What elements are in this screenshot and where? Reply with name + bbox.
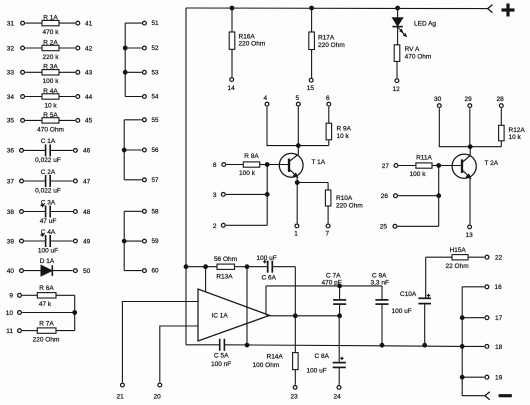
terminal 6 bbox=[326, 95, 331, 106]
wire terminal 4 drop bbox=[267, 107, 296, 146]
svg-text:45: 45 bbox=[85, 118, 93, 125]
svg-text:6: 6 bbox=[326, 95, 330, 102]
wire C6A drop to output bbox=[294, 267, 296, 316]
svg-text:37: 37 bbox=[7, 178, 15, 185]
junction R13A right bbox=[245, 265, 249, 269]
svg-text:28: 28 bbox=[497, 96, 505, 103]
svg-text:16: 16 bbox=[495, 284, 503, 291]
svg-text:47 k: 47 k bbox=[39, 301, 52, 308]
svg-text:100 nF: 100 nF bbox=[211, 361, 231, 368]
svg-text:10 k: 10 k bbox=[337, 133, 350, 140]
svg-text:46: 46 bbox=[83, 148, 91, 155]
svg-text:60: 60 bbox=[152, 268, 160, 275]
svg-text:220 Ohm: 220 Ohm bbox=[318, 42, 345, 49]
svg-text:7: 7 bbox=[326, 230, 330, 237]
wire terminal 29 drop bbox=[469, 108, 471, 147]
svg-text:R14A: R14A bbox=[267, 354, 284, 361]
capacitor C10A bbox=[392, 291, 432, 345]
svg-text:C 9A: C 9A bbox=[372, 272, 387, 279]
svg-text:100 k: 100 k bbox=[410, 171, 427, 178]
resistor R3A row 33-43 bbox=[7, 64, 93, 86]
svg-text:10 k: 10 k bbox=[44, 102, 57, 109]
resistor R8A terminal 8 bbox=[213, 153, 267, 177]
svg-text:100 uF: 100 uF bbox=[307, 367, 327, 374]
plus supply symbol bbox=[502, 4, 515, 17]
svg-text:48: 48 bbox=[83, 209, 91, 216]
svg-text:25: 25 bbox=[380, 224, 388, 231]
terminal 16 bbox=[462, 284, 502, 291]
wire op-amp supply drop bbox=[205, 267, 207, 293]
svg-text:30: 30 bbox=[434, 96, 442, 103]
transistor T1A bbox=[279, 153, 325, 177]
terminal 5 bbox=[296, 95, 301, 106]
svg-text:C10A: C10A bbox=[400, 291, 417, 298]
svg-text:49: 49 bbox=[83, 238, 91, 245]
svg-text:220 Ohm: 220 Ohm bbox=[33, 337, 60, 344]
terminal 17 bbox=[460, 315, 502, 322]
junction op-amp supply bbox=[204, 265, 208, 269]
junction T1A base node bbox=[265, 163, 269, 167]
wire T1A collector bbox=[297, 146, 299, 155]
capacitor C2A row 37-47 bbox=[7, 169, 91, 195]
svg-text:47 uF: 47 uF bbox=[40, 218, 57, 225]
svg-text:8: 8 bbox=[213, 162, 217, 169]
wire right bus bbox=[462, 287, 485, 396]
svg-text:2: 2 bbox=[213, 223, 217, 230]
junction R17A top bbox=[310, 6, 314, 10]
svg-text:15: 15 bbox=[307, 85, 315, 92]
resistor R5A row 35-45 bbox=[7, 112, 93, 134]
terminal 30 bbox=[434, 96, 442, 108]
diode D1A row 40-50 bbox=[7, 258, 91, 276]
wire T2A collector bbox=[469, 147, 471, 156]
svg-text:19: 19 bbox=[495, 375, 503, 382]
svg-text:50: 50 bbox=[83, 268, 91, 275]
svg-text:10: 10 bbox=[6, 310, 14, 317]
svg-text:55: 55 bbox=[152, 117, 160, 124]
svg-text:10 k: 10 k bbox=[509, 134, 522, 141]
terminal 4 bbox=[264, 95, 269, 106]
terminal 26 wire bbox=[381, 193, 439, 200]
svg-text:41: 41 bbox=[85, 20, 93, 27]
connector chevron top right bbox=[488, 5, 493, 13]
svg-text:44: 44 bbox=[85, 94, 93, 101]
junction T2A base node bbox=[437, 164, 441, 168]
svg-text:220 Ohm: 220 Ohm bbox=[336, 202, 363, 209]
resistor R14A to terminal 23 bbox=[253, 316, 299, 401]
terminal 19 bbox=[460, 375, 502, 382]
svg-text:T 2A: T 2A bbox=[485, 160, 499, 167]
svg-text:38: 38 bbox=[7, 209, 15, 216]
svg-text:14: 14 bbox=[228, 85, 236, 92]
wire non-inverting input to terminal 20 bbox=[154, 326, 199, 400]
svg-text:33: 33 bbox=[7, 70, 15, 77]
svg-text:23: 23 bbox=[291, 393, 299, 400]
svg-text:100 k: 100 k bbox=[43, 78, 60, 85]
op-amp IC1A bbox=[198, 289, 270, 341]
svg-text:24: 24 bbox=[334, 393, 342, 400]
capacitor C7A bbox=[322, 272, 347, 316]
svg-text:R 8A: R 8A bbox=[244, 153, 259, 160]
junction drop bottom bbox=[245, 343, 249, 347]
svg-text:RV A: RV A bbox=[405, 46, 420, 53]
svg-text:C 7A: C 7A bbox=[326, 272, 341, 279]
svg-text:20: 20 bbox=[154, 393, 162, 400]
junction T1A collector node bbox=[296, 144, 300, 148]
wire H15A to C10A bbox=[425, 257, 427, 298]
svg-text:4: 4 bbox=[264, 95, 268, 102]
capacitor C1A row 36-46 bbox=[7, 138, 91, 164]
svg-text:26: 26 bbox=[381, 193, 389, 200]
wire base node drop bbox=[266, 165, 268, 226]
svg-text:C 6A: C 6A bbox=[262, 274, 277, 281]
wire terminal 10 to node bbox=[6, 310, 75, 317]
wire R13A to bottom rail bbox=[246, 267, 248, 345]
svg-text:3,3 nF: 3,3 nF bbox=[371, 280, 389, 287]
svg-text:29: 29 bbox=[465, 96, 473, 103]
wire T2A base node drop bbox=[438, 166, 440, 227]
junction node 10 bbox=[73, 311, 77, 315]
svg-text:R 1A: R 1A bbox=[43, 15, 58, 22]
wire feedback top bbox=[266, 285, 382, 287]
svg-text:27: 27 bbox=[382, 163, 390, 170]
terminal group 58-60 bbox=[122, 208, 159, 274]
svg-text:LED Ag: LED Ag bbox=[414, 21, 436, 28]
svg-text:47: 47 bbox=[83, 178, 91, 185]
wire R6A-R7A common node bbox=[74, 295, 76, 330]
svg-text:42: 42 bbox=[85, 45, 93, 52]
wire bottom rail left bbox=[186, 344, 220, 346]
terminal group 51-54 bbox=[123, 20, 159, 100]
capacitor C4A row 39-49 bbox=[7, 229, 91, 255]
terminal 18 bbox=[460, 344, 502, 351]
svg-text:36: 36 bbox=[7, 148, 15, 155]
junction C9A bottom bbox=[380, 343, 384, 347]
transistor T2A bbox=[452, 154, 499, 178]
svg-text:35: 35 bbox=[7, 118, 15, 125]
svg-text:57: 57 bbox=[152, 177, 160, 184]
wire C8A riser bbox=[338, 316, 340, 363]
resistor R10A to terminal 7 bbox=[297, 183, 363, 238]
svg-text:43: 43 bbox=[85, 70, 93, 77]
svg-text:470 Ohm: 470 Ohm bbox=[405, 54, 432, 61]
svg-text:13: 13 bbox=[466, 232, 474, 239]
capacitor C9A bbox=[371, 272, 389, 345]
svg-text:100 uF: 100 uF bbox=[38, 248, 58, 255]
junction LED top bbox=[396, 6, 400, 10]
resistor R9A bbox=[298, 107, 351, 146]
svg-text:R11A: R11A bbox=[416, 154, 432, 161]
resistor R7A terminal 11 bbox=[6, 321, 74, 344]
terminal group 55-57 bbox=[122, 117, 159, 184]
svg-text:R 5A: R 5A bbox=[43, 112, 58, 119]
svg-text:39: 39 bbox=[7, 238, 15, 245]
svg-text:T 1A: T 1A bbox=[312, 159, 326, 166]
svg-text:59: 59 bbox=[152, 238, 160, 245]
svg-text:R10A: R10A bbox=[336, 195, 353, 202]
svg-text:12: 12 bbox=[393, 86, 401, 93]
svg-text:470 Ohm: 470 Ohm bbox=[37, 126, 64, 133]
svg-text:H15A: H15A bbox=[450, 247, 467, 254]
svg-text:56: 56 bbox=[152, 147, 160, 154]
svg-text:31: 31 bbox=[7, 20, 15, 27]
junction R16A top bbox=[230, 6, 234, 10]
wire T1A emitter to terminal 1 bbox=[294, 177, 299, 238]
svg-text:R 6A: R 6A bbox=[39, 285, 54, 292]
resistor R6A terminal 9 bbox=[9, 285, 74, 308]
junction C7A top bbox=[338, 284, 342, 288]
capacitor C5A bbox=[211, 339, 231, 368]
junction R13A left bbox=[184, 265, 188, 269]
svg-text:470 k: 470 k bbox=[43, 29, 60, 36]
svg-text:17: 17 bbox=[495, 315, 503, 322]
svg-text:32: 32 bbox=[7, 45, 15, 52]
svg-text:C 1A: C 1A bbox=[41, 138, 56, 145]
svg-text:9: 9 bbox=[9, 293, 13, 300]
svg-text:51: 51 bbox=[152, 20, 160, 27]
svg-text:IC 1A: IC 1A bbox=[212, 313, 229, 320]
terminal 29 bbox=[465, 96, 473, 108]
terminal 25 wire bbox=[380, 224, 439, 231]
resistor R1A row 31-41 bbox=[7, 15, 93, 37]
resistor R2A row 32-42 bbox=[7, 39, 93, 61]
wire terminal 30 drop bbox=[439, 108, 468, 147]
svg-text:52: 52 bbox=[152, 45, 160, 52]
svg-text:R16A: R16A bbox=[239, 33, 256, 40]
svg-text:R 7A: R 7A bbox=[39, 321, 54, 328]
resistor R12A bbox=[470, 108, 526, 147]
svg-text:54: 54 bbox=[152, 94, 160, 101]
wire T1A base bbox=[267, 164, 288, 166]
svg-text:11: 11 bbox=[6, 328, 13, 335]
junction T1A emitter node bbox=[295, 181, 299, 185]
svg-text:56 Ohm: 56 Ohm bbox=[214, 256, 237, 263]
svg-text:C 8A: C 8A bbox=[315, 353, 330, 360]
resistor H15A to terminal 22 bbox=[426, 247, 503, 270]
terminal 28 bbox=[497, 96, 505, 108]
svg-text:C 5A: C 5A bbox=[214, 352, 229, 359]
svg-text:220 Ohm: 220 Ohm bbox=[239, 40, 266, 47]
wire top supply rail bbox=[186, 7, 488, 10]
junction C10A bottom bbox=[423, 343, 427, 347]
svg-text:470 pF: 470 pF bbox=[322, 280, 342, 287]
junction C7A bottom bbox=[338, 314, 342, 318]
svg-text:C 2A: C 2A bbox=[41, 169, 56, 176]
svg-text:R13A: R13A bbox=[216, 273, 233, 280]
svg-text:18: 18 bbox=[495, 344, 503, 351]
resistor R16A to terminal 14 bbox=[228, 8, 266, 92]
resistor R11A terminal 27 bbox=[382, 154, 439, 178]
svg-text:22 Ohm: 22 Ohm bbox=[446, 263, 469, 270]
junction node 3 bbox=[265, 193, 269, 197]
svg-text:R 3A: R 3A bbox=[43, 64, 58, 71]
resistor R17A to terminal 15 bbox=[307, 8, 345, 92]
capacitor C8A to terminal 24 bbox=[307, 353, 346, 400]
wire T2A base bbox=[439, 165, 461, 167]
svg-text:R 2A: R 2A bbox=[43, 39, 58, 46]
svg-text:100 Ohm: 100 Ohm bbox=[253, 362, 280, 369]
svg-text:5: 5 bbox=[296, 95, 300, 102]
svg-text:D 1A: D 1A bbox=[40, 258, 55, 265]
svg-text:0,022 uF: 0,022 uF bbox=[35, 188, 61, 195]
junction node 26 bbox=[437, 194, 441, 198]
svg-text:58: 58 bbox=[152, 208, 160, 215]
terminal 3 wire bbox=[213, 192, 267, 199]
svg-text:3: 3 bbox=[213, 192, 217, 199]
minus supply symbol bbox=[499, 394, 512, 397]
LED A with series resistor RV A to terminal 12 bbox=[392, 8, 436, 93]
svg-text:R 9A: R 9A bbox=[337, 125, 352, 132]
capacitor C3A row 38-48 bbox=[7, 199, 91, 225]
svg-text:100 k: 100 k bbox=[239, 170, 256, 177]
junction output node bbox=[293, 314, 297, 318]
wire bottom rail bbox=[224, 345, 462, 347]
svg-text:34: 34 bbox=[7, 94, 15, 101]
wire terminal 5 drop bbox=[297, 107, 299, 146]
terminal 2 wire bbox=[213, 223, 267, 230]
svg-text:1: 1 bbox=[294, 230, 298, 237]
svg-text:0,022 uF: 0,022 uF bbox=[35, 157, 61, 164]
svg-text:40: 40 bbox=[7, 268, 15, 275]
wire feedback riser bbox=[265, 286, 267, 315]
svg-text:220 k: 220 k bbox=[43, 54, 60, 61]
svg-text:22: 22 bbox=[495, 255, 503, 262]
resistor R4A row 34-44 bbox=[7, 88, 93, 110]
svg-text:100 uF: 100 uF bbox=[392, 308, 412, 315]
connector chevron bottom right bbox=[485, 392, 490, 400]
svg-text:100 uF: 100 uF bbox=[257, 255, 277, 262]
wire T2A emitter to terminal 13 bbox=[466, 178, 474, 239]
resistor R13A bbox=[186, 256, 247, 280]
wire inverting input to terminal 21 bbox=[117, 302, 199, 401]
svg-text:53: 53 bbox=[152, 69, 160, 76]
svg-text:R12A: R12A bbox=[509, 127, 526, 134]
wire op-amp output bbox=[266, 315, 340, 317]
junction T2A collector node bbox=[468, 145, 472, 149]
svg-text:21: 21 bbox=[117, 393, 125, 400]
svg-text:R17A: R17A bbox=[318, 34, 335, 41]
svg-text:R 4A: R 4A bbox=[43, 88, 58, 95]
wire left supply rail bbox=[185, 8, 187, 345]
capacitor C6A bbox=[247, 255, 295, 281]
